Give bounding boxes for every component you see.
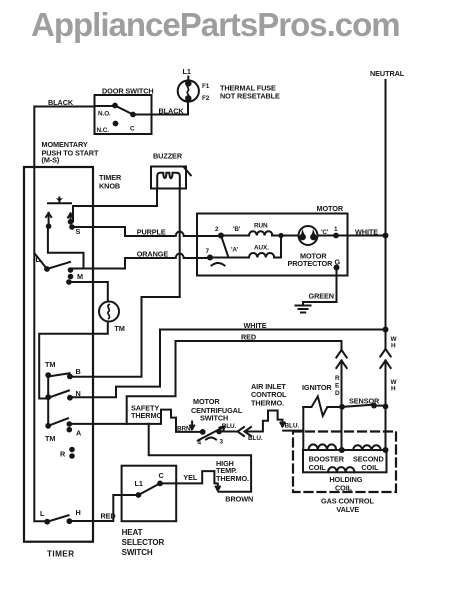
svg-text:L: L	[36, 255, 41, 264]
svg-text:BLACK: BLACK	[48, 98, 74, 107]
svg-text:R: R	[335, 375, 340, 382]
svg-text:E: E	[335, 383, 340, 390]
svg-text:N.C.: N.C.	[97, 127, 110, 134]
svg-text:C: C	[130, 126, 135, 133]
svg-text:(M-S): (M-S)	[42, 156, 60, 165]
svg-text:RED: RED	[101, 512, 116, 521]
svg-text:MOTOR: MOTOR	[317, 204, 344, 213]
svg-text:AppliancePartsPros.com: AppliancePartsPros.com	[31, 6, 400, 43]
svg-text:RUN: RUN	[254, 223, 268, 230]
svg-text:H: H	[76, 508, 81, 517]
svg-text:TM: TM	[45, 434, 55, 443]
svg-text:M: M	[77, 272, 83, 281]
svg-text:C: C	[159, 471, 165, 480]
svg-text:THERMO: THERMO	[131, 411, 162, 420]
svg-text:N.O.: N.O.	[98, 111, 111, 118]
svg-text:COIL: COIL	[335, 484, 353, 493]
svg-text:3: 3	[220, 439, 224, 446]
svg-text:TM: TM	[114, 324, 124, 333]
svg-text:THERMO.: THERMO.	[216, 474, 249, 483]
svg-text:A: A	[76, 429, 82, 438]
svg-text:TIMER: TIMER	[47, 550, 74, 559]
svg-text:MOTOR: MOTOR	[193, 397, 220, 406]
svg-text:PURPLE: PURPLE	[137, 228, 166, 237]
svg-text:4: 4	[198, 440, 202, 447]
svg-text:AUX.: AUX.	[254, 245, 269, 252]
svg-text:YEL: YEL	[183, 473, 198, 482]
svg-text:SWITCH: SWITCH	[200, 414, 228, 423]
svg-text:7: 7	[206, 248, 210, 255]
svg-text:DOOR SWITCH: DOOR SWITCH	[102, 87, 154, 96]
svg-text:BLACK: BLACK	[159, 107, 185, 116]
svg-text:L1: L1	[183, 67, 191, 76]
svg-text:SENSOR: SENSOR	[349, 397, 380, 406]
svg-text:VALVE: VALVE	[336, 505, 359, 514]
svg-text:NEUTRAL: NEUTRAL	[370, 69, 405, 78]
svg-text:'A': 'A'	[231, 247, 239, 254]
svg-text:RED: RED	[241, 333, 256, 342]
svg-text:SWITCH: SWITCH	[122, 548, 153, 557]
svg-text:R: R	[60, 450, 66, 459]
svg-text:1: 1	[334, 226, 338, 233]
svg-text:B: B	[76, 367, 81, 376]
svg-text:G: G	[335, 258, 341, 267]
svg-text:NOT RESETABLE: NOT RESETABLE	[220, 92, 280, 101]
svg-text:COIL: COIL	[361, 463, 379, 472]
svg-text:TM: TM	[45, 360, 55, 369]
svg-text:GREEN: GREEN	[309, 292, 334, 301]
svg-text:'C': 'C'	[321, 229, 329, 236]
svg-text:2: 2	[215, 226, 219, 233]
svg-text:H: H	[391, 343, 396, 350]
svg-text:COIL: COIL	[309, 463, 327, 472]
svg-text:HEAT: HEAT	[122, 528, 143, 537]
svg-text:F2: F2	[202, 95, 210, 102]
svg-text:BROWN: BROWN	[225, 495, 253, 504]
svg-text:BLU.: BLU.	[248, 435, 263, 442]
svg-text:BUZZER: BUZZER	[153, 152, 183, 161]
svg-text:WHITE: WHITE	[244, 321, 267, 330]
svg-text:L: L	[40, 509, 45, 518]
svg-text:L1: L1	[135, 479, 143, 488]
svg-text:'B': 'B'	[233, 226, 241, 233]
svg-text:WHITE: WHITE	[355, 228, 378, 237]
svg-text:F1: F1	[202, 83, 210, 90]
svg-text:THERMO.: THERMO.	[251, 399, 284, 408]
svg-text:IGNITOR: IGNITOR	[302, 383, 332, 392]
svg-text:H: H	[391, 386, 396, 393]
svg-text:SELECTOR: SELECTOR	[122, 538, 165, 547]
svg-text:N: N	[76, 389, 81, 398]
svg-text:BLU.: BLU.	[222, 423, 237, 430]
svg-text:PROTECTOR: PROTECTOR	[288, 259, 334, 268]
svg-text:KNOB: KNOB	[99, 182, 120, 191]
svg-text:BLU.: BLU.	[285, 423, 300, 430]
svg-text:D: D	[335, 390, 340, 397]
svg-text:ORANGE: ORANGE	[137, 250, 169, 259]
svg-text:S: S	[76, 227, 81, 236]
svg-text:BRN.: BRN.	[177, 426, 193, 433]
